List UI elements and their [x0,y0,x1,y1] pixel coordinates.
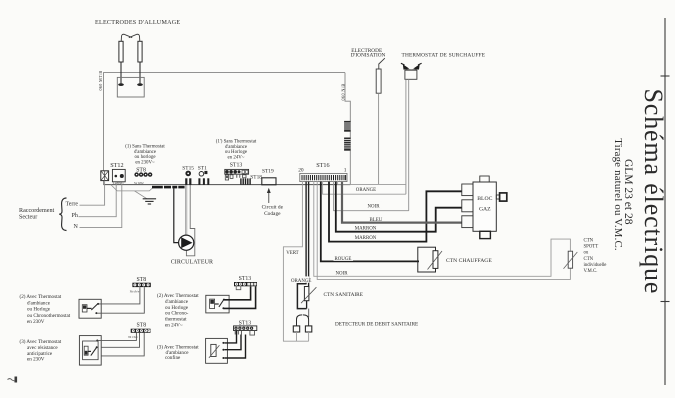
svg-text:ROUGE: ROUGE [335,257,352,262]
svg-text:ou Horloge: ou Horloge [27,307,51,313]
svg-text:en 230V~: en 230V~ [135,161,155,166]
CTN chauffage box [418,247,436,272]
ground symbol [143,199,156,204]
wire ROUGE to CTN chauffage [321,182,419,262]
solder pad dash 1 [152,186,163,189]
thermostat box (3) 24V CTN [206,338,228,363]
connector ST15 [185,171,191,185]
electrode terminal 2 [137,83,143,86]
svg-text:ST13: ST13 [239,276,252,282]
svg-text:ORANGE: ORANGE [291,279,311,284]
wire n [80,182,122,228]
label NOIR (mid) [367,202,383,210]
label BLEU [369,215,386,223]
label MARRON 2 [354,233,378,241]
ignition electrode 1 [119,41,123,62]
connector ST16 [300,173,347,181]
earth terminal box [101,171,109,181]
wire NOIR-A to CTN spott [314,182,571,277]
wire NOIR mid [334,182,409,211]
label VERT [285,248,301,256]
note (2) avec thermostat 230V [20,293,71,325]
connector ST8 (diag 2) [130,283,151,294]
svg-text:ST13: ST13 [230,163,243,169]
svg-text:N: N [74,224,79,230]
page artifact mark bottom left [8,379,15,381]
svg-text:ST8: ST8 [137,323,147,329]
svg-text:CTN: CTN [584,257,594,262]
wire to CTN sanitaire a [305,182,307,284]
svg-text:ST18: ST18 [250,175,262,181]
svg-text:d'ambiance: d'ambiance [134,150,156,155]
label circuit de codage [262,205,284,217]
svg-text:20: 20 [298,167,304,173]
CTN sanitaire thermistor [301,287,316,304]
svg-text:(1) Sans Thermostat: (1) Sans Thermostat [125,145,165,150]
label ORANGE (top) [355,185,378,193]
note (1') sans thermostat 24V [216,140,257,161]
svg-text:Circuit de: Circuit de [262,205,284,211]
svg-text:CIRCULATEUR: CIRCULATEUR [171,260,213,266]
circulator wire 3 (right loop) [186,185,194,256]
solder pad dash 3 [172,186,177,189]
svg-text:Sv 9/02: Sv 9/02 [134,181,144,185]
svg-text:CTN SANITAIRE: CTN SANITAIRE [324,292,363,298]
ignition electrode 2 [138,41,142,62]
svg-text:CTN: CTN [584,239,594,244]
svg-text:ou: ou [584,251,589,256]
svg-text:NOIR: NOIR [336,271,349,276]
CTN sanitaire bottom stub [306,301,308,309]
thermostat box (2) 24V [206,295,229,313]
main control board outline [104,73,351,185]
connector ST8 (diag 3) [128,329,150,339]
connector ST8 [134,172,152,185]
note (2) avec thermostat 24V [157,292,199,328]
note (1) sans thermostat 230V [125,145,165,166]
svg-text:1: 1 [344,167,347,173]
svg-text:060 N/B: 060 N/B [341,83,346,100]
label electrode d'ionisation [351,48,386,59]
wire MARRON 1 to bloc gaz conn2 [336,182,462,232]
svg-text:Terre: Terre [66,202,79,208]
gas valve BLOC GAZ body [473,182,496,231]
connector ST12 [112,169,125,185]
svg-text:Raccordement: Raccordement [19,208,54,214]
bloc gaz left connector 3 [462,216,473,228]
electrode top wire 1 [121,34,132,41]
svg-text:CTN CHAUFFAGE: CTN CHAUFFAGE [446,258,492,264]
label MARRON 1 [354,224,378,232]
svg-text:d'ambiance: d'ambiance [27,300,51,306]
label raccordement secteur [19,208,54,220]
separator dash bottom [661,301,670,303]
svg-text:ST12: ST12 [110,162,123,169]
CTN spott thermistor [564,251,578,269]
solder pad dash 2 [164,186,171,189]
svg-text:(2) Avec Thermostat: (2) Avec Thermostat [20,293,62,300]
board connector hatch block 2 (right edge) [344,138,351,151]
svg-text:en 230V: en 230V [27,357,45,363]
wire MARRON 2 to bloc gaz conn1 [329,182,462,242]
circulator wire 1 (dark, left) [174,188,179,243]
svg-text:SPOTT: SPOTT [584,245,599,250]
svg-text:Nt t/b/v: Nt t/b/v [130,289,140,293]
svg-text:DETECTEUR DE DEBIT SANITAIRE: DETECTEUR DE DEBIT SANITAIRE [335,322,418,328]
circulator wire 2 (grey pair, top) [185,185,186,236]
circuit de codage arrow [267,188,271,203]
CTN chauffage thermistor [428,251,443,270]
svg-text:ou Horloge: ou Horloge [225,150,247,155]
wires box3-230V to ST8 [98,333,145,356]
svg-text:Secteur: Secteur [19,214,37,220]
ground lead diagonal [135,191,147,199]
svg-text:ORANGE: ORANGE [356,188,376,193]
svg-text:MARRON: MARRON [355,236,377,241]
wire to CTN sanitaire b [308,182,310,287]
svg-text:THERMOSTAT DE SURCHAUFFE: THERMOSTAT DE SURCHAUFFE [402,53,486,59]
svg-text:ELECTRODES D'ALLUMAGE: ELECTRODES D'ALLUMAGE [95,20,180,26]
svg-text:confine: confine [165,354,181,361]
svg-text:VERT: VERT [286,251,298,256]
svg-text:NOIR: NOIR [368,205,381,210]
electrode lead wire 2 [139,62,141,84]
board bottom edge / bus line [104,184,351,186]
bloc gaz left connector 2 [462,200,473,212]
ionisation electrode wire [378,93,380,184]
separator dash top [661,75,670,77]
svg-text:D'IONISATION: D'IONISATION [351,53,386,59]
ionisation electrode body [376,69,381,93]
bloc gaz bottom tab [480,231,491,238]
wires box CTN to ST13 [224,331,245,359]
svg-text:en 230V: en 230V [27,319,45,325]
right margin separator line [664,18,666,385]
flow detector symbol [293,315,312,341]
svg-text:individuelle: individuelle [584,263,607,268]
wire ORANGE loop [323,182,406,195]
svg-text:(3) Avec Thermostat: (3) Avec Thermostat [20,338,62,345]
svg-text:ou horloge: ou horloge [134,155,155,160]
overheat thermostat wire 2 [408,79,410,210]
svg-text:BLEU: BLEU [370,218,383,223]
wire NOIR-B to CTN spott thermistor [317,182,570,280]
svg-text:ST8: ST8 [137,277,147,283]
label CTN spott [584,239,607,275]
wire VERT (green) [283,182,308,342]
thermostat box (2) 230V [79,299,101,318]
circulator pump CIRCULATEUR [179,235,194,250]
ionisation electrode tip [379,58,385,69]
svg-text:Schéma électrique: Schéma électrique [639,89,668,295]
wires box 24V to ST13 [224,286,256,308]
connector ST1 [198,171,209,185]
svg-text:Tirage naturel ou V.M.C.: Tirage naturel ou V.M.C. [612,138,624,251]
board connector hatch block 1 (right edge) [344,121,351,132]
svg-text:d'ambiance: d'ambiance [225,145,247,150]
wire terre [80,181,105,205]
svg-text:GAZ: GAZ [479,207,491,213]
brace [59,198,66,231]
svg-text:en 24V~: en 24V~ [228,156,245,161]
svg-text:(1') Sans Thermostat: (1') Sans Thermostat [216,140,257,145]
ignition transformer box [117,77,144,97]
connector ST13 (diag 3-24V) [234,326,257,335]
svg-text:V.M.C.: V.M.C. [584,269,598,274]
svg-text:ST19: ST19 [262,169,274,175]
bloc gaz left connector 1 [462,184,473,196]
note (3) avec thermostat resistance [20,338,62,363]
wires box2-230V to ST8 [97,287,145,313]
bloc gaz right connector [496,193,507,201]
bloc gaz top tab [480,176,489,182]
svg-text:ST1: ST1 [198,165,207,171]
svg-text:BLOC: BLOC [477,196,492,202]
wire ph [79,182,117,217]
svg-text:ST16: ST16 [316,162,329,169]
overheat thermostat symbol [401,63,422,79]
thermostat box (3) 230V [79,336,101,366]
overheat thermostat wire 1 [405,79,407,194]
svg-text:en 24V~: en 24V~ [165,322,183,328]
svg-text:Codage: Codage [264,211,281,217]
label ROUGE [334,255,354,263]
connector ST13 (top) [225,169,249,180]
wire BLEU to bloc gaz conn3 [342,182,462,223]
svg-text:Ph: Ph [72,213,78,219]
electrode terminal 1 [118,83,124,86]
label NOIR (bottom) [335,269,350,277]
connector ST13 (diag 2-24V) [234,282,257,290]
connector ST18 comb [240,178,251,184]
connector ST19 [262,178,276,185]
svg-text:MARRON: MARRON [355,226,377,231]
svg-text:060 MT/B: 060 MT/B [98,71,103,91]
electrode lead wire 1 [120,62,122,84]
svg-text:ST15: ST15 [182,165,194,171]
label bloc gaz [477,196,492,213]
svg-text:1.230V ~: 1.230V ~ [113,181,125,185]
solder pad dash 4 [178,186,184,189]
note (3) avec thermostat confine [157,344,199,361]
board lower edge recess under ST8 [111,185,154,191]
CTN sanitaire loop bracket [297,284,306,309]
detecteur link wire [308,309,310,318]
label ORANGE (sanitaire) [290,276,311,284]
electrode top wire 2 [129,34,140,41]
